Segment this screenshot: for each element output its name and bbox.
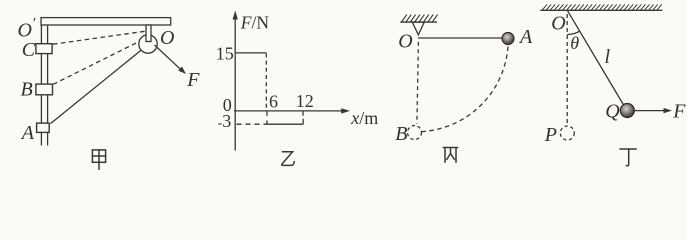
y-axis bbox=[234, 18, 236, 151]
svg-text:O: O bbox=[160, 27, 174, 49]
dashed line C to pulley bbox=[53, 31, 146, 44]
svg-text:C: C bbox=[22, 39, 36, 61]
ceiling hatching bbox=[542, 4, 662, 10]
svg-text:B: B bbox=[395, 123, 407, 145]
tick x=6 bbox=[266, 111, 268, 116]
svg-text:F/N: F/N bbox=[240, 13, 270, 33]
caption jia (甲) bbox=[92, 150, 105, 169]
ball Q bbox=[620, 104, 634, 118]
svg-text:-3: -3 bbox=[218, 111, 232, 131]
tick x=12 bbox=[302, 111, 304, 116]
F=-3 segment with risers bbox=[264, 119, 304, 124]
force F line bbox=[155, 45, 182, 70]
svg-text:F: F bbox=[186, 69, 200, 91]
caption bing (丙) bbox=[443, 148, 457, 163]
y-axis arrowhead bbox=[233, 11, 238, 20]
F=15 segment bbox=[236, 52, 266, 54]
ball A bbox=[502, 33, 514, 45]
svg-text:P: P bbox=[544, 124, 557, 146]
svg-text:O′: O′ bbox=[18, 16, 36, 42]
svg-text:A: A bbox=[518, 26, 533, 48]
ceiling hatching bbox=[402, 15, 438, 22]
svg-text:O: O bbox=[551, 13, 565, 35]
force F arrowhead bbox=[664, 108, 673, 113]
ceiling line bbox=[540, 9, 662, 11]
pulley bracket bbox=[146, 25, 151, 42]
svg-text:B: B bbox=[21, 79, 33, 101]
collar C bbox=[36, 44, 52, 54]
dashed swing arc A to B bbox=[422, 47, 509, 132]
force F line bbox=[634, 110, 664, 112]
svg-text:Q: Q bbox=[605, 100, 620, 122]
beam (horizontal arm) bbox=[41, 18, 171, 25]
x-axis bbox=[234, 110, 342, 112]
svg-text:O: O bbox=[398, 31, 412, 53]
ceiling line bbox=[400, 21, 437, 23]
dashed F=-3 level line bbox=[237, 123, 264, 125]
svg-text:F: F bbox=[672, 101, 686, 123]
x-axis arrowhead bbox=[341, 108, 350, 113]
svg-text:6: 6 bbox=[269, 92, 278, 112]
pivot triangle O bbox=[412, 22, 424, 35]
force F arrowhead bbox=[178, 67, 186, 75]
rope A to pulley bbox=[51, 50, 143, 124]
caption yi (乙) bbox=[282, 152, 295, 166]
collar B bbox=[36, 84, 53, 95]
svg-text:l: l bbox=[605, 46, 611, 68]
pole (vertical post) bbox=[41, 25, 47, 145]
dashed ball B bbox=[408, 126, 422, 140]
svg-text:12: 12 bbox=[296, 91, 314, 111]
rod O to A bbox=[418, 37, 503, 39]
svg-text:x/m: x/m bbox=[350, 108, 378, 128]
collar A bbox=[37, 123, 50, 132]
dashed ball P bbox=[560, 126, 574, 140]
svg-text:15: 15 bbox=[216, 44, 234, 64]
svg-text:A: A bbox=[20, 122, 35, 144]
angle arc theta bbox=[567, 31, 580, 34]
svg-text:θ: θ bbox=[570, 33, 579, 53]
string O to Q bbox=[568, 11, 624, 105]
pulley wheel O bbox=[139, 35, 157, 53]
caption ding (丁) bbox=[620, 149, 636, 166]
dashed vertical O to P bbox=[566, 14, 568, 125]
dashed line B to pulley bbox=[53, 40, 141, 84]
dashed string O-B vertical bbox=[417, 42, 419, 124]
dashed drop at x=6 bbox=[265, 53, 267, 110]
